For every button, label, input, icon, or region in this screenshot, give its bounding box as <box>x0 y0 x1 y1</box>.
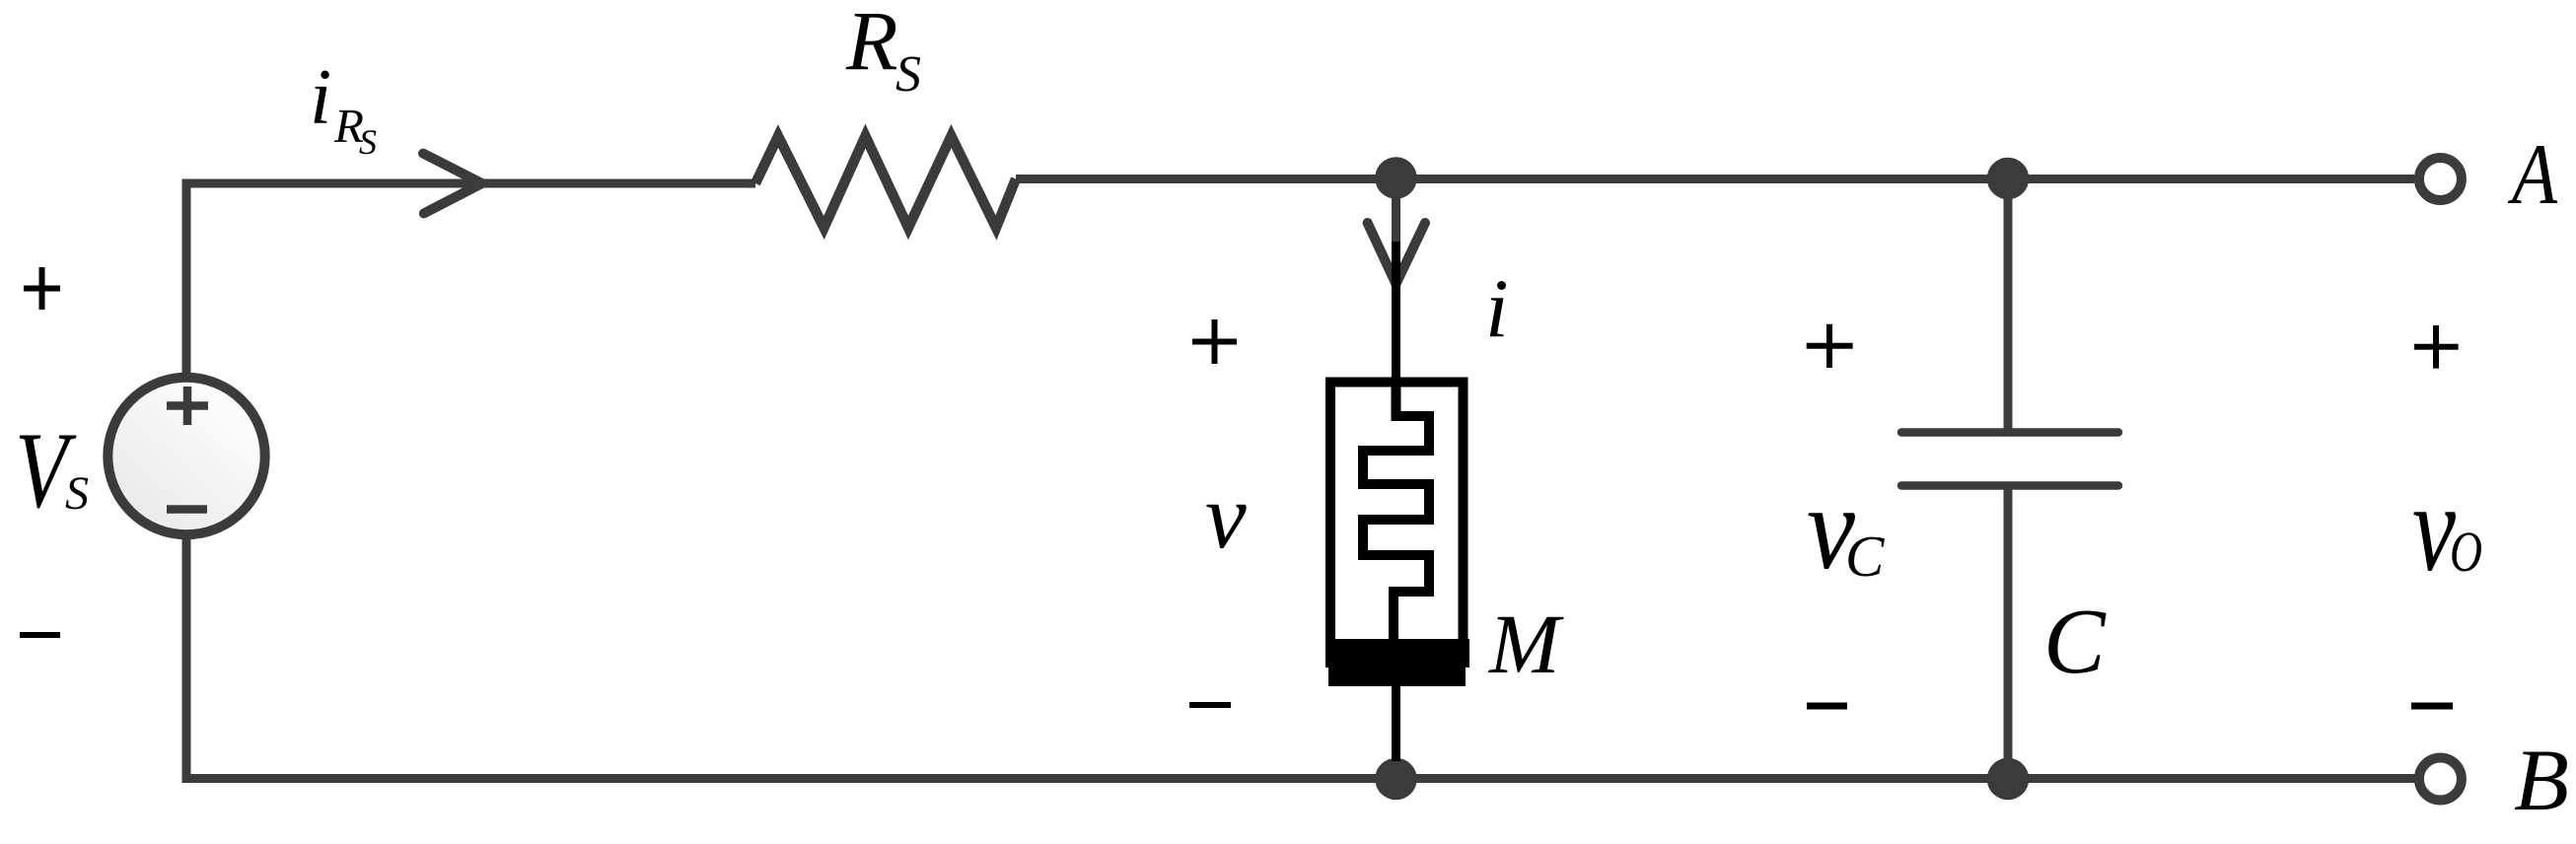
wire capacitor top lead <box>2004 178 2013 429</box>
resistor R_S zigzag <box>755 136 1016 228</box>
node dot bottom memristor junction <box>1375 758 1417 801</box>
svg-text:i: i <box>1485 262 1509 355</box>
voltage source plus sign <box>167 387 208 425</box>
wire top-right horizontal segment <box>1016 175 2414 183</box>
svg-text:S: S <box>359 122 377 162</box>
node dot top memristor junction <box>1375 157 1417 199</box>
wire left vertical upper <box>182 179 191 376</box>
voltage source V_S circle <box>107 378 264 534</box>
svg-text:M: M <box>1487 597 1564 691</box>
svg-text:B: B <box>2514 733 2569 829</box>
node dot bottom capacitor junction <box>1987 758 2030 801</box>
plus sign source left <box>24 267 60 310</box>
svg-text:v: v <box>1205 465 1247 568</box>
minus sign memristor <box>1189 702 1231 708</box>
current arrow i_RS on top wire <box>423 154 482 214</box>
memristor M box outline <box>1330 383 1464 642</box>
svg-text:A: A <box>2508 127 2558 223</box>
wire capacitor bottom lead <box>2004 490 2013 780</box>
memristor M bottom bar <box>1325 639 1469 668</box>
memristor M meander <box>1363 382 1429 643</box>
svg-text:S: S <box>895 46 921 103</box>
wire bottom horizontal <box>182 774 2416 783</box>
voltage source minus sign <box>167 505 207 514</box>
capacitor C top plate <box>1901 428 2118 437</box>
wire left vertical lower <box>182 537 191 783</box>
plus sign memristor <box>1192 319 1237 364</box>
svg-text:i: i <box>310 54 331 141</box>
svg-text:O: O <box>2450 520 2482 584</box>
minus sign capacitor <box>1807 703 1847 710</box>
minus sign source left <box>20 632 60 638</box>
memristor M top lead black <box>1392 242 1400 387</box>
memristor M bottom lead black <box>1392 686 1400 761</box>
terminal A open circle <box>2419 158 2462 200</box>
svg-text:S: S <box>65 467 89 520</box>
terminal B open circle <box>2419 758 2462 801</box>
plus sign capacitor <box>1807 324 1853 368</box>
capacitor C bottom plate <box>1901 481 2118 490</box>
current arrow i into memristor <box>1368 223 1425 284</box>
wire top-left horizontal segment <box>182 179 756 188</box>
minus sign output <box>2411 703 2453 710</box>
svg-text:R: R <box>845 0 898 88</box>
node dot top capacitor junction <box>1987 158 2030 200</box>
plus sign output <box>2414 325 2459 369</box>
wire memristor top lead gray part <box>1392 177 1400 242</box>
svg-text:C: C <box>1845 524 1885 589</box>
svg-text:C: C <box>2043 591 2107 693</box>
